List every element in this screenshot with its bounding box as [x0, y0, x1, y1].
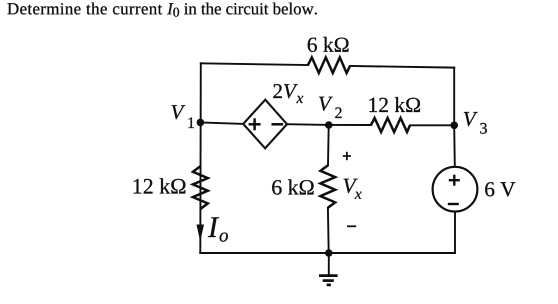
ground symbol bar 1 [319, 274, 338, 277]
wire: top rail right lead [350, 66, 454, 68]
dependent source plus terminal [249, 118, 261, 130]
resistor 12k (between V2 and V3) [371, 118, 410, 132]
wire: right rail upper (top rail to V3) [453, 68, 455, 126]
ground symbol bar 2 [323, 279, 334, 282]
label V1 node name [172, 105, 194, 128]
wire: mid branch upper (V2 down to 6k resistor) [327, 125, 330, 165]
wire: mid branch lower (6k resistor to ground junction) [327, 208, 330, 253]
voltage source 6V circle [433, 167, 478, 212]
label 6 kOhm (top resistor value) [308, 37, 349, 52]
voltage source plus terminal [449, 175, 460, 186]
label Io (branch current) [208, 217, 228, 241]
node V2 junction dot [325, 121, 333, 129]
label 2Vx (dependent source value) [273, 84, 303, 103]
ground symbol bar 3 [327, 284, 331, 287]
wire: top rail left lead [201, 63, 308, 65]
label 6 V (source value) [485, 182, 515, 196]
label V3 node name [464, 112, 487, 134]
resistor 6k (top rail) [308, 57, 350, 73]
wire: V2 to 12k resistor [329, 124, 371, 126]
label 6 kOhm (middle resistor value) [272, 179, 313, 194]
label 12 kOhm (left resistor value) [134, 178, 186, 193]
label 12 kOhm (V2-V3 resistor value) [369, 97, 420, 112]
wire: 12k resistor to V3 [410, 124, 454, 126]
wire: bottom rail [200, 252, 455, 254]
wire: left rail from top-left corner down to bottom-left corner [199, 63, 202, 253]
wire: V3 down to 6V source top [453, 125, 456, 167]
wire: ground stem [328, 253, 330, 275]
label minus sign (Vx polarity) [347, 225, 356, 227]
label V2 node name [319, 97, 342, 118]
current Io arrowhead [197, 225, 205, 242]
wire: V1 to dependent source [201, 122, 243, 124]
wire: dependent source to node V2 [287, 123, 329, 126]
node ground junction dot [325, 249, 333, 257]
wire: 6V source bottom to bottom rail [454, 211, 456, 253]
label Vx (controlling voltage) [344, 179, 362, 199]
title text [8, 3, 317, 17]
node V1 junction dot [197, 119, 205, 127]
label plus sign (Vx polarity) [343, 152, 351, 160]
dependent source minus terminal [272, 123, 284, 126]
node V3 junction dot [450, 122, 458, 130]
resistor 6k (middle branch, Vx) [320, 165, 335, 208]
voltage source minus terminal [448, 203, 459, 205]
resistor 12k (left branch, Io) [193, 166, 208, 209]
dependent source 2Vx diamond [243, 100, 287, 149]
